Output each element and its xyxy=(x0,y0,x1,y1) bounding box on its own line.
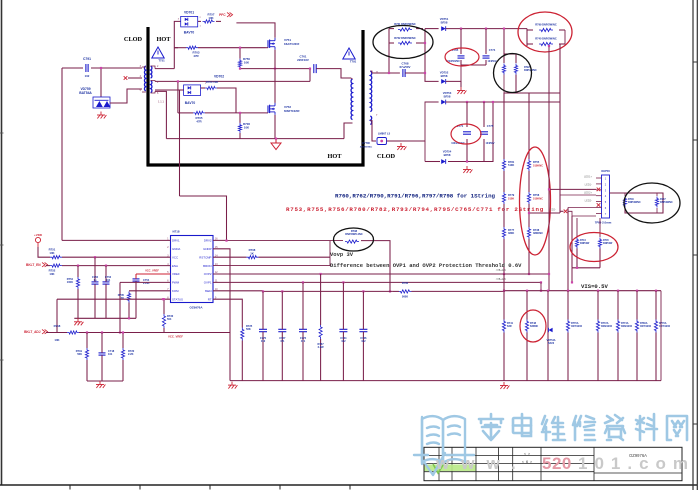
svg-text:ISEN: ISEN xyxy=(205,289,212,293)
resistor R725 xyxy=(241,328,244,341)
resistor R770A xyxy=(566,320,569,333)
diode VD754A xyxy=(547,291,549,381)
svg-text:102: 102 xyxy=(341,339,346,343)
net flag PFC xyxy=(227,13,233,17)
transformer T791 primary xyxy=(351,79,352,120)
svg-text:3W9/1206: 3W9/1206 xyxy=(621,325,633,328)
svg-text:380KNC: 380KNC xyxy=(533,231,543,235)
svg-text:VIS=0.5V: VIS=0.5V xyxy=(581,283,608,290)
wire R761 bypass box xyxy=(388,29,390,73)
svg-text:R704 10K: R704 10K xyxy=(206,80,219,84)
mosfet V751 xyxy=(267,40,269,48)
svg-text:10K: 10K xyxy=(49,272,54,276)
svg-text:VD701: VD701 xyxy=(184,11,194,15)
wire ISEN line xyxy=(213,290,263,292)
diode VD753 BF58 xyxy=(441,100,445,105)
diode VD751 BF58 xyxy=(441,26,445,31)
svg-text:7PIN-2.0mm: 7PIN-2.0mm xyxy=(595,221,612,225)
svg-text:BF58: BF58 xyxy=(441,20,448,24)
svg-text:RT: RT xyxy=(208,297,212,301)
svg-text:104/50V: 104/50V xyxy=(486,142,495,145)
svg-text:56K: 56K xyxy=(77,352,82,356)
mosfet V752 xyxy=(267,105,269,113)
svg-text:60NFTC220F: 60NFTC220F xyxy=(284,109,300,113)
resistor R745 xyxy=(598,238,601,249)
svg-text:R718: R718 xyxy=(54,324,61,328)
svg-text:V752: V752 xyxy=(284,105,291,109)
capacitor C765 xyxy=(458,55,465,57)
svg-text:HOT: HOT xyxy=(328,153,343,160)
capacitor C768 xyxy=(402,69,404,77)
svg-text:PFC: PFC xyxy=(219,13,226,17)
highlight circle black R792/R793 xyxy=(494,54,532,93)
wire VDD to VCC xyxy=(38,247,50,257)
diode VD759 BAT54A xyxy=(93,97,110,108)
svg-text:V751: V751 xyxy=(284,38,291,42)
wire bank gnd rail xyxy=(230,380,661,382)
resistor R755 xyxy=(527,159,530,171)
resistor R774A xyxy=(616,320,619,333)
wire R792 bottoms xyxy=(504,92,560,94)
resistor R718 xyxy=(67,331,79,334)
hot ground triangle xyxy=(271,143,281,150)
label BKLT_EN xyxy=(42,263,48,267)
resistor R793 xyxy=(514,64,517,75)
svg-text:R753,R755,R756/R780/R782,R793/: R753,R755,R756/R780/R782,R793/R794,R795/… xyxy=(286,206,544,213)
wire bank right edge xyxy=(660,291,662,381)
svg-text:Vovp 3V: Vovp 3V xyxy=(330,251,354,258)
svg-text:GNDP: GNDP xyxy=(203,247,211,251)
svg-text:BF58: BF58 xyxy=(441,74,448,78)
svg-text:OVP1: OVP1 xyxy=(204,281,212,285)
wire R792 col xyxy=(503,29,505,63)
highlight ellipse red R744/R745 xyxy=(570,233,618,262)
svg-text:10K: 10K xyxy=(208,16,214,20)
resistor R776A xyxy=(654,320,657,333)
resistor R751 xyxy=(50,256,62,259)
svg-text:510K: 510K xyxy=(508,197,514,201)
highlight ellipse black R746/R747 xyxy=(624,183,680,223)
highlight ellipse red C765 xyxy=(445,48,479,66)
transformer T751 right winding upper xyxy=(151,66,152,78)
wire C765 columns xyxy=(460,29,462,54)
svg-text:BF58: BF58 xyxy=(444,153,451,157)
svg-text:CLOD: CLOD xyxy=(124,36,143,43)
xmark pin7 xyxy=(564,210,568,214)
svg-text:HOT: HOT xyxy=(157,36,172,43)
svg-text:OZ9976A: OZ9976A xyxy=(189,306,203,310)
svg-text:2.2W: 2.2W xyxy=(318,345,325,349)
isolation bar horizontal xyxy=(147,163,365,166)
svg-text:471: 471 xyxy=(301,339,306,343)
capacitor C764 xyxy=(339,328,347,330)
resistor R747 xyxy=(655,197,658,208)
svg-text:4W7/1206: 4W7/1206 xyxy=(640,325,652,328)
svg-text:DNP/2WNC: DNP/2WNC xyxy=(660,201,673,204)
svg-text:VCC: VCC xyxy=(172,255,178,259)
wire col join xyxy=(529,212,560,214)
isolation bar vertical left (CLOD/HOT) xyxy=(146,27,149,166)
wire C791 node xyxy=(62,67,83,69)
wire x560 drop xyxy=(559,44,561,213)
svg-text:4W7/1206: 4W7/1206 xyxy=(571,325,583,328)
resistor R766A xyxy=(635,320,638,333)
connector X9750 body xyxy=(602,175,610,218)
wire half-bridge node xyxy=(274,50,276,103)
svg-text:472/250VAC: 472/250VAC xyxy=(360,146,373,149)
wire x549 drop xyxy=(548,46,550,291)
svg-text:DNP/2W6.4NC: DNP/2W6.4NC xyxy=(345,232,363,236)
svg-text:510K: 510K xyxy=(508,163,514,167)
wire OVP2 line xyxy=(213,273,549,275)
svg-text:T791: T791 xyxy=(350,60,357,64)
dual diode VD702 BAV70 xyxy=(184,85,201,96)
svg-text:C791: C791 xyxy=(83,57,91,61)
wire OVP2 end xyxy=(528,271,530,273)
title block green signature xyxy=(425,465,476,472)
wire VD752 xyxy=(425,73,439,81)
svg-text:2.2uF: 2.2uF xyxy=(143,281,150,285)
watermark 520101 xyxy=(414,416,474,475)
svg-text:56K: 56K xyxy=(246,327,251,331)
resistor R792 xyxy=(502,64,505,75)
wire mid rail from pin1 xyxy=(155,80,310,82)
svg-text:LM867 L5: LM867 L5 xyxy=(378,132,391,136)
svg-text:10K: 10K xyxy=(54,338,59,342)
svg-text:K6A/TC220F: K6A/TC220F xyxy=(284,42,300,46)
svg-text:DRV2: DRV2 xyxy=(204,239,212,243)
svg-text:510KNC: 510KNC xyxy=(533,197,543,201)
svg-text:10K: 10K xyxy=(49,251,54,255)
svg-text:R760,R762/R790,R791/R796,R797/: R760,R762/R790,R791/R796,R797/R798 for 1… xyxy=(335,193,496,200)
resistor R705k xyxy=(127,292,130,303)
resistor R704 xyxy=(205,86,217,89)
svg-text:67u/50V: 67u/50V xyxy=(400,65,411,69)
svg-text:1 1 1: 1 1 1 xyxy=(158,100,164,104)
wire VD759 right to pin xyxy=(110,89,142,103)
wire VD753 out xyxy=(446,101,560,103)
svg-text:R779: R779 xyxy=(508,193,515,197)
border frame right double xyxy=(692,0,694,490)
svg-text:220F16V: 220F16V xyxy=(297,58,309,62)
wire V751 drain xyxy=(236,23,275,38)
svg-text:OVP2: OVP2 xyxy=(204,272,212,276)
wire KOM left xyxy=(129,290,171,292)
svg-text:100K: 100K xyxy=(67,280,73,284)
svg-text:BAV70: BAV70 xyxy=(184,31,195,35)
svg-text:PWM: PWM xyxy=(172,281,180,285)
border zone ticks left xyxy=(0,132,4,134)
capacitor C771 xyxy=(463,131,471,133)
highlight ellipse black R761/R762 xyxy=(373,26,433,59)
svg-text:VCC_VREF: VCC_VREF xyxy=(168,335,183,339)
resistor R754 100K xyxy=(76,277,79,289)
connector pin stubs xyxy=(596,177,602,179)
wire R744 rail drop xyxy=(571,268,573,283)
svg-text:520: 520 xyxy=(542,454,572,473)
resistor R738 xyxy=(527,227,530,239)
capacitor C718 xyxy=(99,352,106,354)
wire rect node xyxy=(425,28,439,30)
wire R740 box xyxy=(526,29,528,46)
capacitor C766 xyxy=(359,328,367,330)
resistor R732 xyxy=(162,314,165,328)
svg-text:R740 DNP/2W/NC: R740 DNP/2W/NC xyxy=(535,37,557,41)
wire ENA line xyxy=(46,265,50,267)
capacitor C761 xyxy=(313,64,315,73)
ground sec1 xyxy=(460,87,462,91)
svg-text:47R: 47R xyxy=(196,120,202,124)
wire STATUS left xyxy=(57,298,171,300)
wire PWM left xyxy=(120,281,171,283)
resistor R705 47R xyxy=(193,111,205,114)
svg-text:3W9/1206: 3W9/1206 xyxy=(601,325,613,328)
resistor R706b xyxy=(238,123,241,133)
resistor R746 xyxy=(623,197,626,208)
svg-text:LED2+: LED2+ xyxy=(584,191,592,195)
svg-text:GNDA: GNDA xyxy=(172,247,180,251)
svg-text:X9750: X9750 xyxy=(601,169,610,173)
wire x568 drop xyxy=(567,208,569,291)
wire conn left feeds xyxy=(549,188,596,190)
svg-text:1u: 1u xyxy=(93,278,96,282)
svg-text:104/50V: 104/50V xyxy=(488,60,497,63)
svg-text:102: 102 xyxy=(85,74,90,78)
wire T751 pin stub mid xyxy=(128,77,142,79)
resistor R744 xyxy=(575,238,578,249)
svg-text:BAV70: BAV70 xyxy=(185,101,196,105)
svg-text:LED2-: LED2- xyxy=(549,208,556,212)
svg-text:560K: 560K xyxy=(402,295,408,299)
svg-text:VREF: VREF xyxy=(172,272,180,276)
resistor R703 xyxy=(186,46,198,49)
resistor R741 xyxy=(502,320,505,333)
ground sec2 xyxy=(466,166,468,170)
wire GNDP drop xyxy=(213,249,230,381)
resistor R798 xyxy=(345,240,359,243)
resistor R761 xyxy=(398,28,412,31)
svg-text:www.: www. xyxy=(435,454,528,473)
wire DRV2 loop xyxy=(180,196,227,240)
transformer T791 secondary lower xyxy=(370,116,371,124)
wire VD753 node xyxy=(401,102,439,141)
resistor R748 xyxy=(525,320,528,333)
wire bank top rail xyxy=(504,290,661,292)
svg-text:N718: N718 xyxy=(173,230,180,234)
svg-text:2.2K: 2.2K xyxy=(128,352,134,356)
svg-text:LED2-: LED2- xyxy=(585,199,592,203)
svg-text:101: 101 xyxy=(108,352,113,356)
svg-text:BKLT_EN: BKLT_EN xyxy=(26,263,41,267)
svg-text:BF58: BF58 xyxy=(444,94,451,98)
warning triangle T791 xyxy=(343,48,355,59)
resistor R767 xyxy=(319,325,322,339)
wire gate line upper xyxy=(174,47,186,49)
title block table xyxy=(424,447,682,480)
resistor R758 xyxy=(527,192,530,204)
resistor R752 xyxy=(50,264,62,267)
transformer lower out to L5 xyxy=(370,121,376,141)
resistor R777 xyxy=(502,227,505,239)
svg-text:LED1+: LED1+ xyxy=(584,175,592,179)
resistor R740 xyxy=(539,42,553,45)
svg-text:104: 104 xyxy=(106,278,111,282)
svg-text:+VDD: +VDD xyxy=(34,233,43,237)
svg-text:47R: 47R xyxy=(193,54,199,58)
resistor R720 xyxy=(121,348,124,360)
wire C771 box xyxy=(424,141,426,162)
svg-text:RSTCMP: RSTCMP xyxy=(199,255,211,259)
svg-text:63R: 63R xyxy=(507,325,512,328)
svg-text:R706: R706 xyxy=(402,281,409,285)
svg-text:LED1-: LED1- xyxy=(585,183,592,187)
svg-text:152: 152 xyxy=(261,339,266,343)
wire C761 to primary xyxy=(316,69,351,78)
svg-text:504: 504 xyxy=(167,317,172,321)
resistor R719 xyxy=(85,348,88,360)
resistor R799 xyxy=(539,28,553,31)
transformer T751 left winding xyxy=(144,66,145,91)
ground bank right xyxy=(503,382,505,386)
svg-text:1K: 1K xyxy=(250,251,254,255)
wire secondary top xyxy=(372,72,400,74)
svg-text:380K: 380K xyxy=(508,231,514,235)
wire VREF red xyxy=(136,273,171,275)
svg-text:<VB+12V: <VB+12V xyxy=(496,269,507,272)
svg-text:C774: C774 xyxy=(489,48,496,52)
svg-text:CY708: CY708 xyxy=(362,142,370,145)
wire L5 right xyxy=(387,140,402,142)
resistor R706 560K xyxy=(399,290,412,293)
svg-text:BAV6: BAV6 xyxy=(548,342,555,345)
ground bank left xyxy=(231,382,233,386)
warning triangle T751 xyxy=(152,47,164,58)
resistor R781 xyxy=(502,159,505,171)
svg-text:DNP/2WNC: DNP/2WNC xyxy=(628,201,641,204)
wire OVP1 drop xyxy=(540,282,542,290)
resistor R708 xyxy=(246,256,258,259)
wire left loop vertical xyxy=(61,68,63,238)
wire R746 box xyxy=(610,192,658,194)
wire DRV1 loop xyxy=(61,238,63,240)
ground below VD759 xyxy=(100,112,102,116)
diode VD752 BF58 xyxy=(441,79,445,84)
border zone ticks bottom xyxy=(69,485,71,490)
wire VD759 top stub xyxy=(100,68,102,97)
svg-text:C775: C775 xyxy=(487,124,494,128)
dual diode VD701 BAV70 xyxy=(181,16,198,27)
xmark pin5 xyxy=(597,203,601,207)
capacitor C775 xyxy=(480,131,488,133)
wire x180 riser xyxy=(155,90,180,196)
wire ADJ line xyxy=(46,332,67,334)
svg-text:Difference between OVP1 and OV: Difference between OVP1 and OVP2 Protect… xyxy=(330,262,522,269)
svg-text:471: 471 xyxy=(280,339,285,343)
wire V752 source rail xyxy=(274,115,276,139)
highlight ellipse red C771 xyxy=(451,124,481,144)
net flag +VDD xyxy=(35,237,40,242)
wire upper gate loop xyxy=(155,68,174,70)
highlight ellipse red R755 column xyxy=(520,147,551,255)
resistor R772A xyxy=(596,320,599,333)
svg-text:ENA: ENA xyxy=(172,264,178,268)
svg-text:DNP/2W: DNP/2W xyxy=(603,242,613,245)
svg-text:R755: R755 xyxy=(533,160,540,164)
svg-text:10K: 10K xyxy=(244,61,250,65)
highlight ellipse red R799/R740 xyxy=(518,12,572,52)
capacitor C791 xyxy=(85,64,87,72)
svg-text:101.com: 101.com xyxy=(578,454,695,473)
svg-text:DRV1: DRV1 xyxy=(172,239,180,243)
svg-text:KOM: KOM xyxy=(172,289,179,293)
svg-text:CLOD: CLOD xyxy=(377,153,396,160)
capacitor C767 xyxy=(278,328,286,330)
wire VD751 out xyxy=(446,28,527,30)
wire col left xyxy=(503,171,505,192)
transformer T791 secondary xyxy=(370,71,371,112)
isolation bar vertical right (T791 core) xyxy=(361,30,364,167)
svg-text:DNP/2WNC: DNP/2WNC xyxy=(524,69,537,72)
resistor R757 xyxy=(203,20,215,23)
capacitor C772 xyxy=(299,328,307,330)
capacitor C754 xyxy=(133,278,140,280)
svg-text:<VB+12V: <VB+12V xyxy=(496,278,507,281)
svg-text:10K: 10K xyxy=(244,126,250,130)
highlight ellipse black R798 xyxy=(334,228,374,251)
resistor R750 xyxy=(238,59,241,69)
wire mid rail junction xyxy=(309,69,311,82)
resistor R762 xyxy=(398,41,412,44)
capacitor C753 xyxy=(103,281,110,283)
border zone ticks right xyxy=(693,61,697,63)
svg-text:DNP/2W: DNP/2W xyxy=(580,242,590,245)
svg-text:STATUS: STATUS xyxy=(172,297,183,301)
svg-text:63RNC: 63RNC xyxy=(530,325,538,328)
border frame left xyxy=(1,0,3,486)
resistor R779 xyxy=(502,192,505,204)
svg-text:VD702: VD702 xyxy=(214,75,224,79)
capacitor C774 xyxy=(483,55,490,57)
ground rail IC xyxy=(74,317,136,319)
svg-text:R799 DNP/2W/NC: R799 DNP/2W/NC xyxy=(535,23,557,27)
capacitor C770 xyxy=(259,328,267,330)
svg-text:BKLT_ADJ: BKLT_ADJ xyxy=(24,330,41,334)
wire col right xyxy=(528,93,530,159)
svg-text:BRON: BRON xyxy=(203,264,211,268)
svg-text:VCC_VREF: VCC_VREF xyxy=(145,269,159,273)
capacitor C752 xyxy=(92,281,99,283)
xmark pin2 xyxy=(597,188,601,192)
wire OVP1 line xyxy=(213,281,541,283)
label BKLT_ADJ xyxy=(42,330,48,334)
IC U751 OZ9976A xyxy=(171,236,214,303)
transformer T751 right winding lower xyxy=(151,81,152,93)
svg-text:510KNC: 510KNC xyxy=(533,164,543,168)
ground rail PWM xyxy=(87,380,123,382)
wire lower gate loop xyxy=(177,81,179,113)
highlight ellipse red R748 xyxy=(520,310,546,342)
svg-text:R762 DNP/2W/NC: R762 DNP/2W/NC xyxy=(394,36,416,40)
diode VD754 BF58 xyxy=(441,159,445,164)
wire BRON line xyxy=(213,241,330,266)
wire RT line xyxy=(213,299,242,321)
wire R798 line xyxy=(227,240,344,242)
svg-text:BAT54A: BAT54A xyxy=(79,91,92,95)
wire R744 box xyxy=(576,218,578,237)
inductor L5 LM867 xyxy=(377,138,387,145)
wire C768 right xyxy=(405,29,425,73)
svg-text:R758: R758 xyxy=(533,193,540,197)
